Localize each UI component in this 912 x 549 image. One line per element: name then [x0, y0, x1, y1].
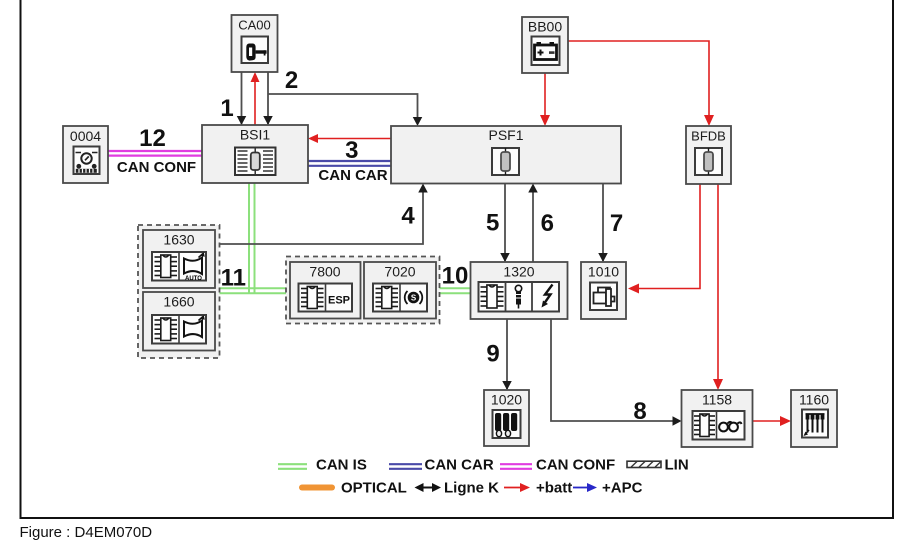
wire +batt red 1158 to 1160: [753, 416, 792, 426]
figure caption: [20, 524, 153, 541]
icon chip and wheel in 7020: [373, 284, 427, 312]
ECU box BSI1: [202, 125, 308, 183]
bus CAN IS green vertical from BSI1: [249, 183, 255, 294]
svg-text:BSI1: BSI1: [240, 127, 271, 143]
label CAN CONF: [117, 159, 196, 176]
svg-text:PSF1: PSF1: [488, 127, 523, 143]
legend label LIN: [665, 457, 689, 474]
svg-text:Ligne K: Ligne K: [444, 480, 499, 497]
svg-text:S: S: [411, 294, 417, 303]
legend +batt red arrow: [504, 483, 530, 492]
icon BSI relay in BSI1: [235, 148, 276, 176]
label number 2: [285, 67, 298, 94]
svg-text:11: 11: [221, 265, 246, 292]
label number 6: [541, 210, 554, 237]
svg-text:CAN CAR: CAN CAR: [425, 457, 494, 474]
icon chip and coils in 1158: [693, 411, 745, 440]
legend CAN IS green sample: [278, 464, 307, 469]
ECU box BB00 battery: [522, 17, 568, 73]
ECU box 1630: [143, 230, 215, 288]
svg-text:1: 1: [220, 95, 233, 122]
legend label CAN CAR: [425, 457, 494, 474]
label number 9: [486, 341, 499, 368]
svg-text:10: 10: [442, 262, 469, 289]
svg-text:CAN CONF: CAN CONF: [117, 159, 196, 176]
wire 5 Ligne K PSF1 to 1320: [500, 184, 510, 263]
svg-text:7020: 7020: [384, 264, 415, 280]
svg-text:1660: 1660: [163, 294, 194, 310]
legend CAN CONF magenta sample: [500, 464, 532, 469]
wire +batt red BB00 to BFDB: [568, 41, 714, 126]
bus CAN CAR blue double line: [308, 161, 391, 166]
label number 8: [633, 398, 646, 425]
wire +batt red BFDB to 1158: [713, 184, 723, 390]
wire 2 Ligne K CA00 branch to PSF1: [268, 94, 422, 126]
legend +APC blue arrow: [573, 483, 597, 492]
wire +batt red BSI1 to CA00: [251, 72, 260, 125]
label number 11: [221, 265, 246, 292]
dashed group 1630 and 1660: [138, 225, 220, 358]
legend LIN hatched sample: [627, 461, 661, 467]
svg-text:1630: 1630: [163, 232, 194, 248]
icon starter motor in 1010: [590, 283, 617, 311]
label CAN CAR: [318, 167, 387, 184]
label number 12: [139, 125, 166, 152]
svg-text:LIN: LIN: [665, 457, 689, 474]
svg-text:3: 3: [345, 137, 358, 164]
svg-text:BFDB: BFDB: [691, 129, 726, 144]
icon fuse in BFDB: [695, 148, 722, 175]
svg-text:2: 2: [285, 67, 298, 94]
wire +batt red BB00 to PSF1: [540, 73, 550, 126]
legend CAN CAR blue sample: [389, 464, 422, 469]
wire +batt red BFDB to 1010: [628, 184, 700, 294]
svg-text:ESP: ESP: [328, 295, 350, 307]
svg-text:CAN CONF: CAN CONF: [536, 457, 615, 474]
icon glow plug rail in 1160: [802, 410, 828, 438]
svg-text:0004: 0004: [70, 128, 101, 144]
bus CAN CONF magenta double line: [108, 151, 202, 156]
wire Ligne K CA00 to BSI1 right line: [263, 72, 273, 125]
legend label CAN IS: [316, 457, 367, 474]
label number 7: [610, 210, 623, 237]
icon fuse in PSF1: [492, 148, 519, 175]
label number 5: [486, 210, 499, 237]
svg-text:+APC: +APC: [602, 480, 643, 497]
svg-text:8: 8: [633, 398, 646, 425]
legend label Ligne K: [444, 480, 499, 497]
svg-text:1020: 1020: [491, 392, 522, 408]
legend label +batt: [536, 480, 572, 497]
legend OPTICAL orange sample: [302, 485, 332, 491]
ECU box BFDB fuse box: [686, 126, 731, 184]
frame right border: [892, 0, 894, 519]
icon key in CA00: [242, 37, 269, 64]
svg-text:BB00: BB00: [528, 19, 562, 35]
legend label CAN CONF: [536, 457, 615, 474]
ECU box CA00 ignition switch: [232, 15, 278, 72]
legend label +APC: [602, 480, 643, 497]
ECU box 1160 glow plugs: [791, 390, 837, 447]
ECU box 7020 ABS: [364, 262, 436, 319]
icon chip and horn in 1630: [152, 252, 206, 282]
label number 4: [401, 202, 415, 229]
label number 1: [220, 95, 233, 122]
wire Ligne K CA00 to BSI1 left line 1: [237, 72, 247, 125]
icon instrument cluster in 0004: [74, 147, 100, 175]
ECU box 0004 instrument panel: [63, 126, 108, 183]
wire 9 Ligne K 1320 to 1020: [502, 319, 512, 390]
ECU box PSF1 fuse box: [391, 126, 621, 184]
legend Ligne K double arrow: [415, 483, 442, 492]
svg-text:7800: 7800: [309, 264, 340, 280]
svg-text:1010: 1010: [588, 264, 619, 280]
svg-text:7: 7: [610, 210, 623, 237]
ECU box 1158 glow plug control: [682, 390, 753, 447]
dashed group 7800 and 7020: [286, 257, 440, 324]
svg-text:CAN CAR: CAN CAR: [318, 167, 387, 184]
wire 4 Ligne K 1630 group to PSF1: [220, 184, 428, 245]
legend label OPTICAL: [341, 480, 407, 497]
svg-text:OPTICAL: OPTICAL: [341, 480, 407, 497]
svg-text:1320: 1320: [503, 264, 534, 280]
svg-text:Figure : D4EM070D: Figure : D4EM070D: [20, 524, 153, 541]
ECU box 1660: [143, 292, 215, 351]
bus CAN IS green horizontal run: [220, 288, 471, 293]
svg-text:9: 9: [486, 341, 499, 368]
svg-text:1158: 1158: [702, 392, 732, 408]
ECU box 7800 ESP: [290, 262, 361, 319]
ECU box 1020 injectors: [484, 390, 529, 446]
icon chip and horn in 1660: [152, 315, 206, 344]
label number 3: [345, 137, 358, 164]
svg-text:+batt: +batt: [536, 480, 572, 497]
icon injector bank in 1020: [493, 410, 521, 438]
svg-text:1160: 1160: [799, 392, 829, 408]
svg-text:CAN IS: CAN IS: [316, 457, 367, 474]
svg-text:AUTO: AUTO: [185, 276, 202, 282]
svg-text:5: 5: [486, 210, 499, 237]
ECU box 1320 engine ECU: [471, 262, 568, 319]
icon battery in BB00: [532, 37, 560, 66]
frame bottom border: [20, 517, 895, 519]
svg-text:4: 4: [401, 202, 415, 229]
wire 6 Ligne K 1320 to PSF1: [528, 184, 538, 263]
icon chip and ESP in 7800: [299, 284, 353, 312]
icon chip injector lightning in 1320: [479, 282, 560, 312]
wire 7 Ligne K PSF1 to 1010: [598, 184, 608, 263]
svg-text:12: 12: [139, 125, 166, 152]
svg-text:6: 6: [541, 210, 554, 237]
label number 10: [442, 262, 469, 289]
frame left border: [20, 0, 22, 519]
ECU box 1010 starter: [581, 262, 626, 319]
svg-text:CA00: CA00: [238, 18, 271, 33]
wire 3 red PSF1 to BSI1: [308, 134, 391, 143]
wire 8 Ligne K 1320 to 1158: [551, 319, 682, 426]
